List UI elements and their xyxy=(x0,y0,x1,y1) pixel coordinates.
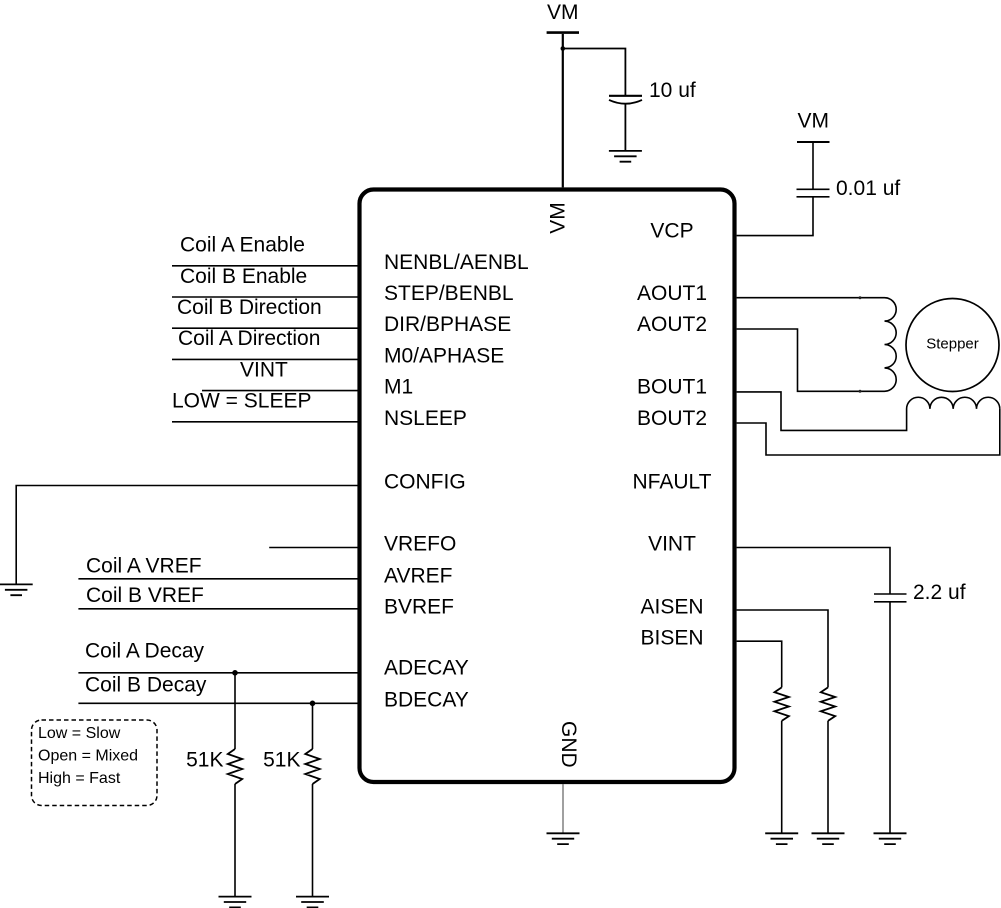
svg-text:NFAULT: NFAULT xyxy=(633,471,712,494)
svg-text:CONFIG: CONFIG xyxy=(384,471,466,494)
svg-text:NENBL/AENBL: NENBL/AENBL xyxy=(384,251,529,274)
svg-text:DIR/BPHASE: DIR/BPHASE xyxy=(384,313,511,336)
svg-text:Coil B VREF: Coil B VREF xyxy=(86,584,204,607)
svg-text:0.01 uf: 0.01 uf xyxy=(836,177,900,200)
svg-text:VINT: VINT xyxy=(648,533,696,556)
svg-text:AOUT2: AOUT2 xyxy=(637,313,707,336)
svg-text:VCP: VCP xyxy=(650,220,693,243)
svg-text:BISEN: BISEN xyxy=(640,626,703,649)
svg-text:M1: M1 xyxy=(384,376,413,399)
svg-text:51K: 51K xyxy=(186,749,223,772)
svg-text:VM: VM xyxy=(547,202,570,234)
svg-text:Coil A Decay: Coil A Decay xyxy=(85,640,205,663)
svg-text:2.2 uf: 2.2 uf xyxy=(913,581,966,604)
svg-text:10 uf: 10 uf xyxy=(649,79,696,102)
svg-text:Coil A VREF: Coil A VREF xyxy=(86,555,202,578)
svg-text:M0/APHASE: M0/APHASE xyxy=(384,344,504,367)
svg-text:VM: VM xyxy=(547,1,579,24)
svg-text:Stepper: Stepper xyxy=(926,336,979,353)
svg-text:AVREF: AVREF xyxy=(384,565,452,588)
svg-text:Coil A Direction: Coil A Direction xyxy=(178,327,320,350)
svg-text:Open = Mixed: Open = Mixed xyxy=(38,748,138,765)
svg-text:NSLEEP: NSLEEP xyxy=(384,407,467,430)
svg-text:VREFO: VREFO xyxy=(384,533,456,556)
svg-text:AISEN: AISEN xyxy=(640,596,703,619)
svg-text:High = Fast: High = Fast xyxy=(38,770,121,787)
svg-text:LOW = SLEEP: LOW = SLEEP xyxy=(172,390,311,413)
svg-text:Low = Slow: Low = Slow xyxy=(38,725,121,742)
svg-text:51K: 51K xyxy=(263,749,300,772)
svg-text:BDECAY: BDECAY xyxy=(384,688,469,711)
svg-text:STEP/BENBL: STEP/BENBL xyxy=(384,282,514,305)
svg-text:BOUT2: BOUT2 xyxy=(637,407,707,430)
svg-text:Coil A Enable: Coil A Enable xyxy=(180,234,305,257)
svg-text:GND: GND xyxy=(557,721,580,768)
svg-text:BOUT1: BOUT1 xyxy=(637,376,707,399)
svg-text:Coil B Direction: Coil B Direction xyxy=(177,296,322,319)
svg-text:AOUT1: AOUT1 xyxy=(637,282,707,305)
svg-text:BVREF: BVREF xyxy=(384,596,454,619)
svg-text:Coil B Enable: Coil B Enable xyxy=(180,265,307,288)
svg-text:VM: VM xyxy=(798,110,830,133)
svg-text:Coil B Decay: Coil B Decay xyxy=(85,673,207,696)
svg-text:VINT: VINT xyxy=(240,358,288,381)
svg-text:ADECAY: ADECAY xyxy=(384,657,469,680)
